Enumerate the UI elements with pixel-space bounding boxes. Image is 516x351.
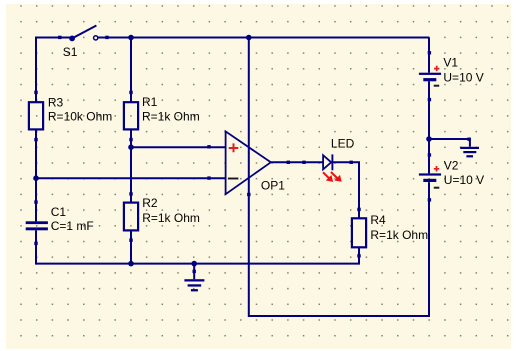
svg-text:C=1 mF: C=1 mF xyxy=(51,219,94,233)
svg-text:R3: R3 xyxy=(48,95,64,109)
svg-text:R4: R4 xyxy=(370,213,386,227)
svg-text:R=10k Ohm: R=10k Ohm xyxy=(48,110,112,124)
svg-text:OP1: OP1 xyxy=(261,178,285,192)
svg-text:R1: R1 xyxy=(142,95,158,109)
svg-text:C1: C1 xyxy=(51,205,67,219)
svg-text:U=10 V: U=10 V xyxy=(443,71,483,85)
svg-text:S1: S1 xyxy=(63,45,78,59)
svg-text:R=1k Ohm: R=1k Ohm xyxy=(370,228,428,242)
svg-text:V1: V1 xyxy=(443,55,458,69)
svg-text:R=1k Ohm: R=1k Ohm xyxy=(142,109,200,123)
svg-text:R2: R2 xyxy=(142,196,158,210)
svg-text:V2: V2 xyxy=(444,159,459,173)
svg-text:U=10 V: U=10 V xyxy=(444,173,484,187)
svg-text:LED: LED xyxy=(331,137,355,151)
svg-text:R=1k Ohm: R=1k Ohm xyxy=(142,211,200,225)
